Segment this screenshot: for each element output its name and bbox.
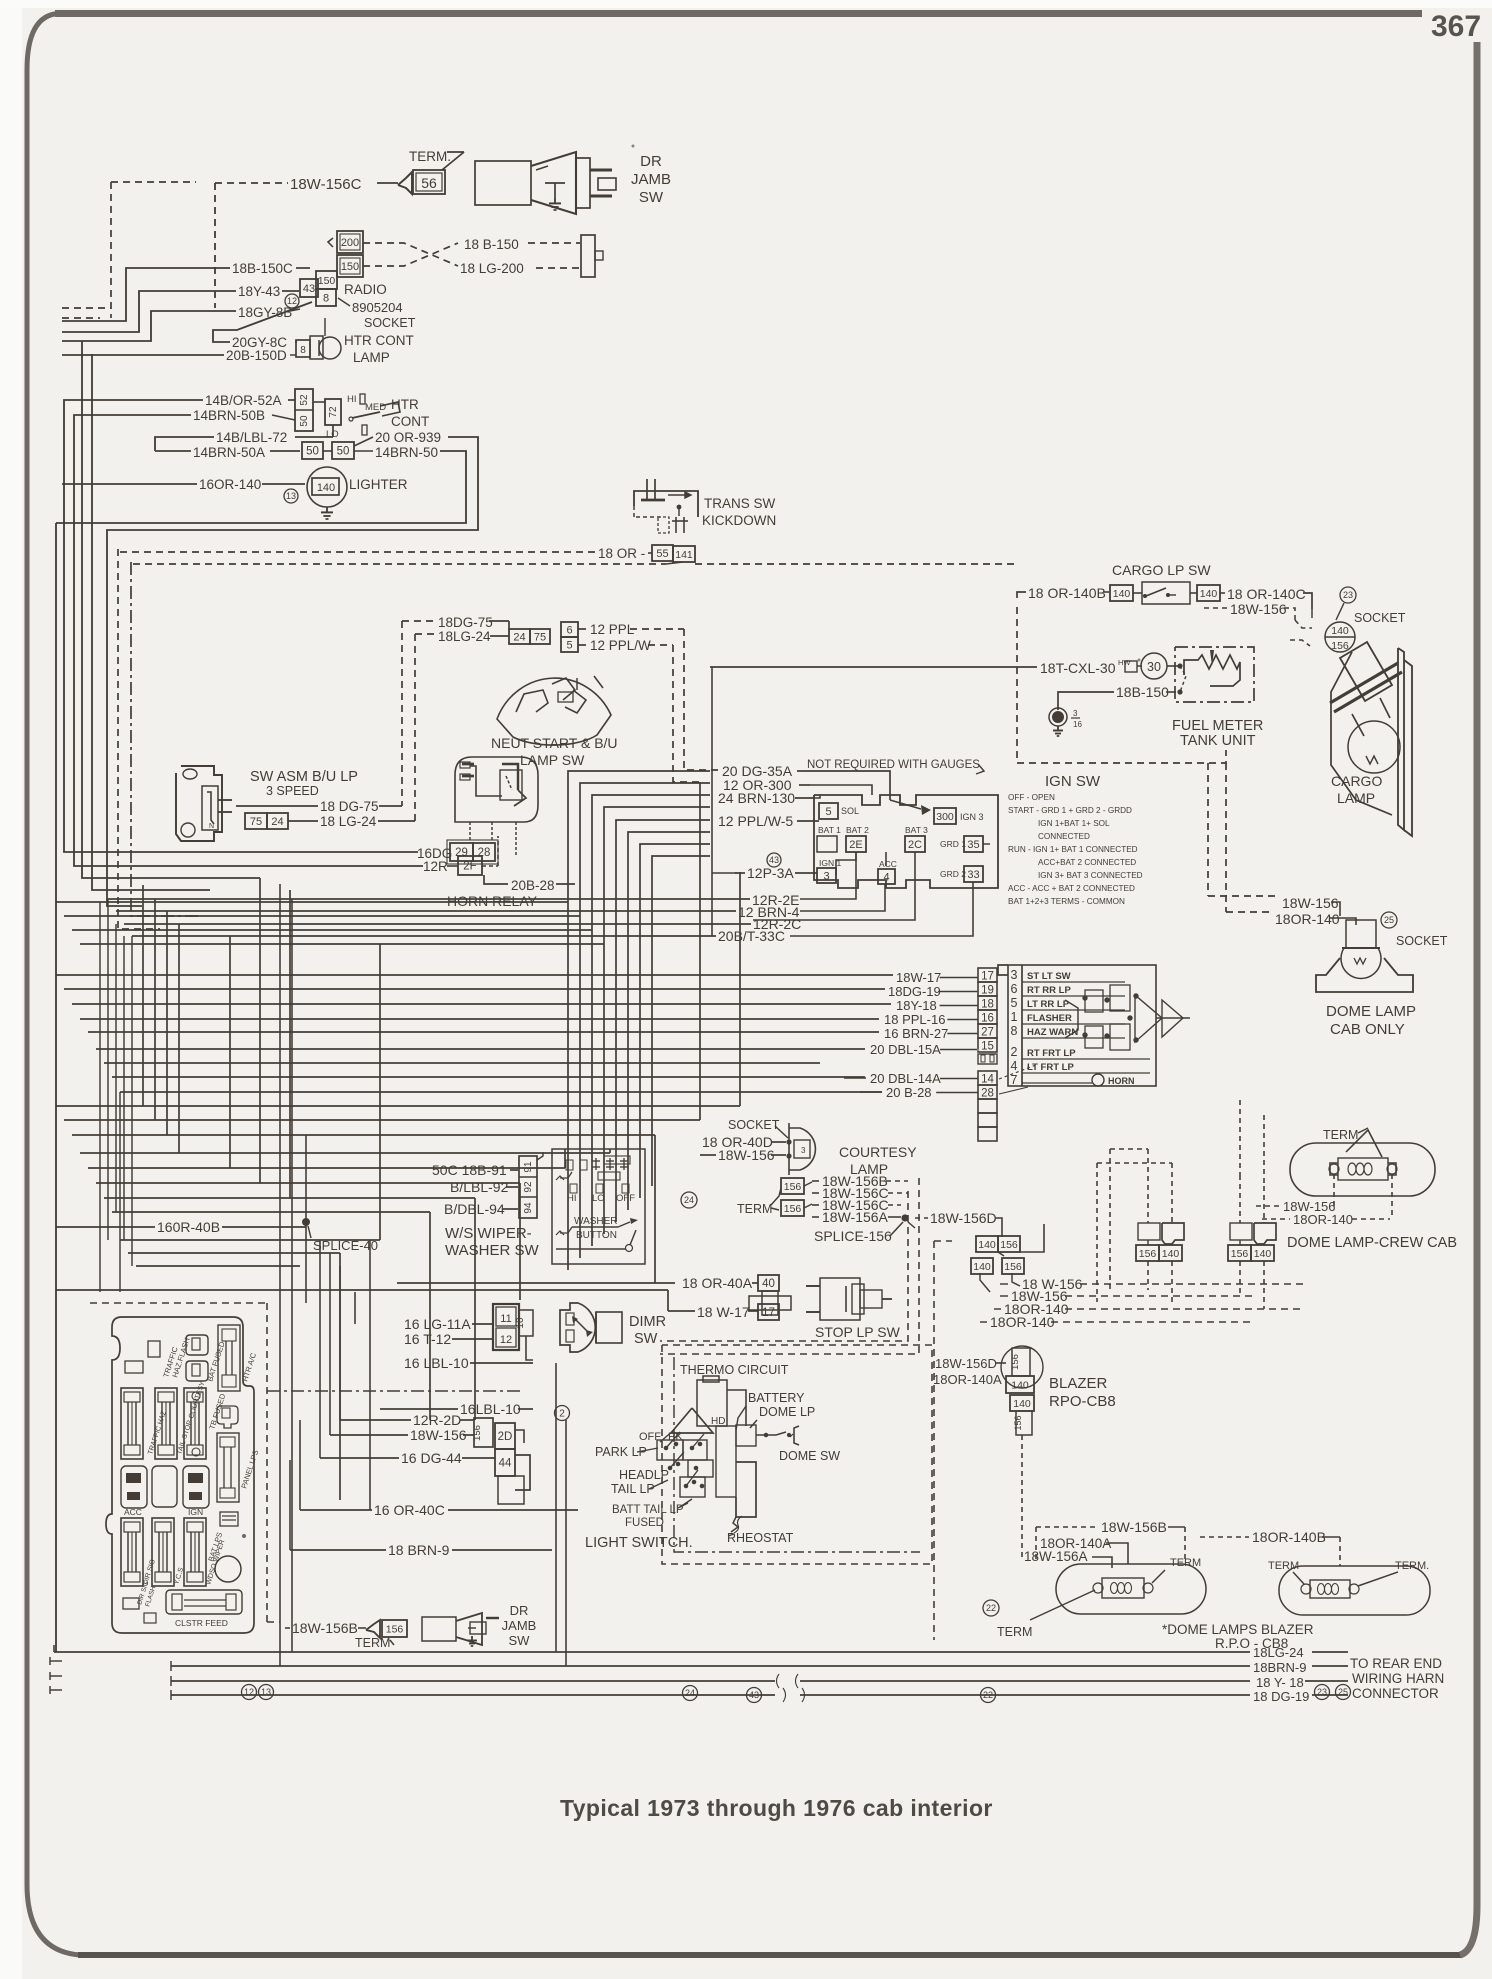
svg-text:14BRN-50B: 14BRN-50B <box>193 408 265 423</box>
washer button <box>560 1227 572 1233</box>
svg-text:17: 17 <box>981 971 994 983</box>
svg-text:20B-150D: 20B-150D <box>226 348 287 363</box>
washer connector 94 92 91 <box>519 1156 537 1218</box>
crew cab connector group 1 <box>1138 1223 1160 1240</box>
svg-text:B/LBL-92: B/LBL-92 <box>450 1179 509 1195</box>
svg-text:16 LG-11A: 16 LG-11A <box>404 1316 471 1332</box>
svg-text:RT RR LP: RT RR LP <box>1027 985 1071 996</box>
svg-text:24 BRN-130: 24 BRN-130 <box>718 790 795 806</box>
wire 18 OR dashed <box>120 551 596 553</box>
svg-text:156: 156 <box>472 1425 483 1441</box>
svg-text:3: 3 <box>801 1146 806 1155</box>
svg-text:18W-156: 18W-156 <box>410 1427 467 1443</box>
svg-text:12R-2D: 12R-2D <box>413 1412 461 1428</box>
svg-text:TO REAR END: TO REAR END <box>1350 1656 1442 1671</box>
ign internal leads <box>836 852 856 875</box>
crew cab dashed feeds <box>1147 1149 1149 1223</box>
svg-text:LT FRT LP: LT FRT LP <box>1027 1062 1074 1073</box>
svg-text:CARGO: CARGO <box>1331 773 1382 789</box>
svg-text:18 Y- 18: 18 Y- 18 <box>1256 1675 1304 1690</box>
svg-text:WIRING HARN: WIRING HARN <box>1352 1671 1444 1686</box>
svg-text:14BRN-50A: 14BRN-50A <box>193 445 265 460</box>
wire 18OR-140 crew cab <box>1262 1218 1290 1220</box>
svg-text:16LBL-10: 16LBL-10 <box>460 1401 521 1417</box>
svg-text:SOCKET: SOCKET <box>1396 934 1448 948</box>
wire 18W-156 crew cab <box>1256 1205 1280 1207</box>
bus circled refs <box>242 1685 257 1700</box>
dashed enclosure stop lamp region <box>660 1191 908 1341</box>
svg-text:40: 40 <box>762 1278 775 1290</box>
dashes to right verticals <box>1080 1283 1305 1285</box>
svg-text:24: 24 <box>684 1195 694 1205</box>
svg-text:NOT REQUIRED WITH GAUGES: NOT REQUIRED WITH GAUGES <box>807 759 980 771</box>
svg-text:43: 43 <box>769 855 779 865</box>
svg-text:11: 11 <box>500 1313 511 1325</box>
svg-text:18OR-140B: 18OR-140B <box>1252 1529 1326 1545</box>
fuse block circle <box>215 1556 241 1582</box>
connector 140/156 pair <box>976 1236 998 1252</box>
svg-text:HAZ WARN: HAZ WARN <box>1027 1027 1078 1038</box>
svg-text:RT FRT LP: RT FRT LP <box>1027 1048 1076 1059</box>
svg-text:HORN: HORN <box>1108 1076 1135 1086</box>
svg-text:KICKDOWN: KICKDOWN <box>702 513 776 528</box>
svg-text:SW: SW <box>509 1633 531 1648</box>
svg-text:18W-156: 18W-156 <box>1230 601 1287 617</box>
htr connector 72 <box>325 399 341 425</box>
label 18LG-24 top <box>415 633 434 635</box>
svg-text:18 OR -: 18 OR - <box>598 546 645 561</box>
cargo lamp bulb assembly <box>1340 642 1392 701</box>
svg-text:SPLICE-40: SPLICE-40 <box>313 1238 378 1253</box>
svg-text:15: 15 <box>981 1041 994 1053</box>
svg-text:SW: SW <box>634 1331 658 1347</box>
svg-text:140: 140 <box>1200 588 1218 600</box>
svg-text:18 B-150: 18 B-150 <box>464 237 519 252</box>
svg-text:27: 27 <box>981 1027 994 1039</box>
svg-text:3: 3 <box>823 870 829 882</box>
svg-text:COURTESY: COURTESY <box>839 1144 917 1160</box>
svg-text:CLSTR FEED: CLSTR FEED <box>175 1618 228 1628</box>
thermo leads <box>727 1390 746 1426</box>
svg-text:BAT 1: BAT 1 <box>818 825 841 835</box>
svg-text:18W-156: 18W-156 <box>1282 895 1339 911</box>
svg-text:GRD 2: GRD 2 <box>940 869 966 879</box>
svg-text:LT RR LP: LT RR LP <box>1027 999 1070 1010</box>
circled 24 courtesy <box>681 1192 697 1208</box>
svg-text:55: 55 <box>656 548 668 560</box>
svg-text:16: 16 <box>1073 720 1082 729</box>
svg-text:29: 29 <box>455 847 468 859</box>
dome lamp cab only symbol <box>1346 920 1376 948</box>
ign sw outline <box>814 795 998 888</box>
svg-text:18LG-24: 18LG-24 <box>438 629 491 644</box>
svg-text:18: 18 <box>981 999 994 1011</box>
box 24 75 <box>509 629 530 644</box>
svg-text:B/DBL-94: B/DBL-94 <box>444 1201 505 1217</box>
dimmer connector 11/12/10 <box>493 1304 519 1350</box>
svg-text:RADIO: RADIO <box>344 282 387 297</box>
svg-text:TERM: TERM <box>1170 1557 1201 1569</box>
svg-text:367: 367 <box>1431 10 1481 43</box>
fuse block bottom bits <box>123 1598 139 1609</box>
svg-text:12: 12 <box>500 1334 512 1346</box>
turn signal switch block <box>1008 965 1156 1086</box>
dashed boundary fuse region <box>90 1302 267 1304</box>
radio socket boxes 43 150 8 <box>300 279 318 297</box>
svg-text:1: 1 <box>1011 1010 1018 1024</box>
svg-text:14BRN-50: 14BRN-50 <box>375 445 438 460</box>
svg-text:SOL: SOL <box>841 806 859 816</box>
svg-text:THERMO CIRCUIT: THERMO CIRCUIT <box>680 1363 789 1377</box>
svg-text:START - GRD 1 + GRD 2 - GRDD: START - GRD 1 + GRD 2 - GRDD <box>1008 806 1132 815</box>
svg-text:18OR-140: 18OR-140 <box>1275 911 1340 927</box>
circled 23 socket <box>1340 587 1356 603</box>
svg-text:14B/OR-52A: 14B/OR-52A <box>205 393 282 408</box>
svg-text:18 OR-140C: 18 OR-140C <box>1227 586 1306 602</box>
bus line 3 <box>171 1680 775 1682</box>
svg-text:4: 4 <box>1011 1059 1018 1073</box>
svg-text:43: 43 <box>749 1690 759 1700</box>
svg-text:DR: DR <box>510 1603 529 1618</box>
svg-text:18W-156D: 18W-156D <box>935 1356 997 1371</box>
svg-text:22: 22 <box>983 1690 993 1700</box>
svg-text:156: 156 <box>1013 1415 1023 1430</box>
svg-text:140: 140 <box>1113 588 1131 600</box>
svg-text:6: 6 <box>566 624 572 636</box>
svg-text:FUSED: FUSED <box>625 1517 664 1529</box>
svg-text:JAMB: JAMB <box>502 1618 537 1633</box>
svg-text:4: 4 <box>883 871 889 883</box>
svg-text:18 DG-75: 18 DG-75 <box>320 799 379 814</box>
wire 18B-150 crossover dashed <box>363 243 458 266</box>
circled 22 blazer <box>983 1600 999 1616</box>
svg-text:TAIL LP: TAIL LP <box>611 1482 655 1496</box>
svg-text:DIMR: DIMR <box>629 1314 666 1330</box>
svg-text:RPO-CB8: RPO-CB8 <box>1049 1393 1116 1410</box>
svg-text:12: 12 <box>244 1687 254 1697</box>
svg-text:SOCKET: SOCKET <box>728 1118 780 1132</box>
svg-text:TERM: TERM <box>997 1625 1032 1639</box>
wire 18W-17 long <box>667 1290 669 1311</box>
svg-text:6: 6 <box>1011 982 1018 996</box>
bat lps small <box>220 1512 238 1526</box>
washer contacts <box>566 1160 573 1170</box>
boxes 55 141 <box>652 545 673 561</box>
svg-text:SOCKET: SOCKET <box>1354 611 1406 625</box>
svg-text:7: 7 <box>1011 1073 1018 1087</box>
rheostat squiggle <box>731 1517 738 1532</box>
fuse row lower <box>121 1518 143 1586</box>
svg-text:CONNECTED: CONNECTED <box>1038 832 1090 841</box>
fuel meter dashed enclosure <box>1017 607 1226 763</box>
svg-text:2F: 2F <box>463 861 476 873</box>
svg-text:DOME LP: DOME LP <box>759 1405 815 1419</box>
bus line 4 <box>171 1694 775 1696</box>
svg-text:156: 156 <box>784 1181 802 1193</box>
svg-text:140: 140 <box>978 1239 996 1251</box>
svg-text:RUN - IGN 1+ BAT 1 CONNECTED: RUN - IGN 1+ BAT 1 CONNECTED <box>1008 845 1138 854</box>
dashed enclosure light switch outer <box>659 1341 661 1354</box>
svg-text:DOME LAMP-CREW CAB: DOME LAMP-CREW CAB <box>1287 1235 1457 1251</box>
bus line 2 <box>171 1665 1250 1667</box>
svg-text:300: 300 <box>936 811 954 823</box>
svg-text:16OR-140: 16OR-140 <box>199 477 261 492</box>
svg-text:CONNECTOR: CONNECTOR <box>1352 1686 1439 1701</box>
svg-text:2C: 2C <box>908 839 922 851</box>
svg-text:23: 23 <box>1343 590 1353 600</box>
scan speck <box>632 145 635 148</box>
svg-text:156: 156 <box>1231 1248 1249 1260</box>
svg-text:18DG-19: 18DG-19 <box>888 984 941 999</box>
svg-text:WASHER SW: WASHER SW <box>445 1242 539 1259</box>
thermo triangle <box>671 1408 713 1433</box>
svg-text:94: 94 <box>523 1202 534 1214</box>
svg-text:52: 52 <box>299 394 310 406</box>
acc connector <box>121 1466 147 1508</box>
stop connector cross symbol <box>752 1290 788 1292</box>
svg-text:44: 44 <box>499 1458 512 1470</box>
svg-text:TERM: TERM <box>355 1636 390 1650</box>
svg-text:DOME LAMP: DOME LAMP <box>1326 1003 1416 1020</box>
dome sw contact <box>756 1434 776 1436</box>
svg-text:22: 22 <box>986 1603 996 1613</box>
svg-text:25: 25 <box>1338 1687 1348 1697</box>
svg-text:IGN 3+ BAT 3 CONNECTED: IGN 3+ BAT 3 CONNECTED <box>1038 871 1143 880</box>
svg-text:20 DBL-15A: 20 DBL-15A <box>870 1042 941 1057</box>
cargo lamp bracket <box>1398 648 1404 830</box>
svg-text:TERM.: TERM. <box>1395 1560 1429 1572</box>
svg-text:ACC: ACC <box>879 859 897 869</box>
svg-text:75: 75 <box>534 631 546 643</box>
svg-text:12R: 12R <box>423 859 448 874</box>
svg-text:18 W-17: 18 W-17 <box>697 1304 750 1320</box>
svg-text:NEUT START & B/U: NEUT START & B/U <box>491 735 618 751</box>
svg-text:72: 72 <box>328 406 339 418</box>
svg-text:18DG-75: 18DG-75 <box>438 615 493 630</box>
fuel meter box <box>1175 647 1254 702</box>
dimmer switch symbol <box>560 1303 595 1352</box>
fuse holder plugs top <box>186 1335 208 1355</box>
label 18DG-75 top <box>402 620 434 622</box>
dome lamps blazer left oval <box>1056 1564 1206 1614</box>
svg-text:140: 140 <box>1162 1248 1180 1260</box>
wire 18W-156C dashed lead <box>215 182 288 184</box>
ign connector <box>183 1466 209 1508</box>
svg-text:12P-3A: 12P-3A <box>747 865 794 881</box>
svg-text:5: 5 <box>566 639 572 651</box>
connector 140 and 156 single <box>971 1258 993 1274</box>
wires 18W-156B/C/C/A <box>812 1180 819 1182</box>
bus break marks <box>777 1674 780 1688</box>
svg-text:12 PPL: 12 PPL <box>590 622 635 637</box>
svg-text:17: 17 <box>762 1307 775 1319</box>
svg-text:TERM -: TERM - <box>1268 1560 1306 1572</box>
svg-text:24: 24 <box>271 816 283 828</box>
bottom term connector <box>366 1620 380 1638</box>
neut start switch fan symbol <box>497 678 611 745</box>
bus line 1 <box>54 1651 1250 1653</box>
svg-text:140: 140 <box>317 482 335 494</box>
svg-text:2E: 2E <box>849 839 862 851</box>
ts connector box column <box>978 968 997 982</box>
svg-text:16 DG-44: 16 DG-44 <box>401 1450 462 1466</box>
svg-text:56: 56 <box>421 175 437 191</box>
connector 56 <box>398 172 412 194</box>
svg-text:ST LT SW: ST LT SW <box>1027 971 1071 982</box>
svg-text:HI: HI <box>567 1193 577 1204</box>
svg-text:14B/LBL-72: 14B/LBL-72 <box>216 430 287 445</box>
clstr feed connector <box>166 1590 242 1614</box>
dashed wire 18DG-75 vertical <box>401 621 403 806</box>
svg-text:140: 140 <box>1011 1379 1029 1391</box>
svg-text:OFF: OFF <box>639 1431 661 1443</box>
wire 18OR-140 dome cab <box>1226 911 1270 913</box>
svg-text:140: 140 <box>1331 625 1349 637</box>
svg-text:18W-156D: 18W-156D <box>930 1210 997 1226</box>
svg-text:2D: 2D <box>498 1431 513 1443</box>
svg-text:12 PPL/W-5: 12 PPL/W-5 <box>718 813 793 829</box>
svg-text:8905204: 8905204 <box>352 300 403 315</box>
light switch boxes <box>657 1440 683 1460</box>
svg-text:200: 200 <box>341 237 359 249</box>
box 44 <box>495 1449 515 1476</box>
svg-text:20 DBL-14A: 20 DBL-14A <box>870 1071 941 1086</box>
svg-text:150: 150 <box>341 261 359 273</box>
svg-text:16: 16 <box>981 1013 994 1025</box>
svg-text:BLAZER: BLAZER <box>1049 1375 1108 1392</box>
svg-text:18 OR-40A: 18 OR-40A <box>682 1275 753 1291</box>
svg-text:140: 140 <box>1254 1248 1272 1260</box>
svg-text:16 OR-40C: 16 OR-40C <box>374 1502 445 1518</box>
svg-text:10: 10 <box>515 1317 526 1329</box>
bus circled 23 25 <box>1315 1685 1330 1700</box>
svg-text:TERM: TERM <box>737 1202 772 1216</box>
svg-text:*DOME LAMPS BLAZER: *DOME LAMPS BLAZER <box>1162 1622 1314 1637</box>
svg-text:RHEOSTAT: RHEOSTAT <box>727 1531 794 1545</box>
lighter <box>307 467 347 507</box>
svg-text:18W-156: 18W-156 <box>718 1147 775 1163</box>
box 5 and 12 PPL/W <box>561 637 578 652</box>
backup switch body <box>455 757 538 822</box>
svg-text:16 LBL-10: 16 LBL-10 <box>404 1355 469 1371</box>
svg-text:SOCKET: SOCKET <box>364 316 416 330</box>
svg-text:24: 24 <box>513 631 525 643</box>
trans sw kickdown symbol <box>634 491 698 517</box>
splice 156 <box>902 1215 908 1221</box>
svg-text:25: 25 <box>1384 915 1394 925</box>
htr connector 50/52 <box>295 389 313 431</box>
svg-text:20 B-28: 20 B-28 <box>886 1085 932 1100</box>
svg-text:18B-150C: 18B-150C <box>232 261 293 276</box>
left edge vertical bundle <box>99 902 101 1292</box>
svg-text:R.P.O - CB8: R.P.O - CB8 <box>1215 1636 1288 1651</box>
svg-text:91: 91 <box>523 1161 534 1173</box>
nested corner bundle to ign <box>568 771 710 1270</box>
svg-text:50: 50 <box>337 446 350 458</box>
svg-text:FLASHER: FLASHER <box>1027 1013 1072 1024</box>
circled 2 <box>555 1406 570 1421</box>
page border frame <box>55 10 1422 17</box>
svg-text:CARGO LP SW: CARGO LP SW <box>1112 562 1211 578</box>
svg-text:5: 5 <box>1011 996 1018 1010</box>
splice 40 <box>303 1219 310 1226</box>
svg-text:8: 8 <box>323 292 329 304</box>
svg-text:OFF - OPEN: OFF - OPEN <box>1008 793 1055 802</box>
wire mesh vertical corners <box>142 885 144 1106</box>
svg-text:33: 33 <box>967 869 979 881</box>
svg-text:LO: LO <box>592 1193 605 1204</box>
svg-text:50: 50 <box>299 415 310 427</box>
svg-text:SW ASM B/U LP: SW ASM B/U LP <box>250 769 358 785</box>
svg-text:28: 28 <box>478 847 491 859</box>
svg-text:HTR: HTR <box>391 397 419 412</box>
dr jamb switch symbol <box>475 161 531 205</box>
fuse htr ac <box>218 1325 240 1391</box>
svg-text:3: 3 <box>1011 968 1018 982</box>
svg-text:160R-40B: 160R-40B <box>157 1219 220 1235</box>
svg-text:18W-156B: 18W-156B <box>292 1620 358 1636</box>
crew cab connector group 2 <box>1230 1223 1252 1240</box>
ts horn <box>1092 1074 1104 1086</box>
svg-text:SW: SW <box>639 189 664 206</box>
svg-text:140: 140 <box>1013 1398 1031 1410</box>
dashed wire right 18W-156 drop <box>1207 763 1209 896</box>
svg-text:18W-156B: 18W-156B <box>1101 1519 1167 1535</box>
svg-text:CAB ONLY: CAB ONLY <box>1330 1021 1405 1038</box>
dashed staircase from ts block <box>1207 763 1209 896</box>
bottom dr jamb switch symbol <box>422 1617 456 1641</box>
svg-text:GRD 1: GRD 1 <box>940 839 966 849</box>
box 6 and 12 PPL <box>561 622 578 637</box>
dashed wire right 18OR-140 drop <box>1225 763 1227 912</box>
svg-text:HEADLP: HEADLP <box>619 1468 669 1482</box>
svg-text:18OR-140: 18OR-140 <box>990 1314 1055 1330</box>
box 75 24 <box>245 813 267 829</box>
wire 18W-156B bottom <box>280 1622 288 1628</box>
svg-text:2: 2 <box>559 1409 565 1420</box>
svg-text:HTR CONT: HTR CONT <box>344 333 414 348</box>
svg-text:BAT 2: BAT 2 <box>846 825 869 835</box>
svg-text:LIGHTER: LIGHTER <box>349 477 408 492</box>
wire 18 OR-40A long <box>397 1282 675 1284</box>
svg-text:BAT 3: BAT 3 <box>905 825 928 835</box>
svg-text:141: 141 <box>675 549 693 561</box>
htr boxes 50 50 <box>302 442 323 459</box>
wire 18OR-140B <box>1017 592 1026 598</box>
fuse panel lps <box>217 1433 239 1502</box>
wire 18W-156 cargo <box>1204 607 1228 609</box>
svg-text:LAMP SW: LAMP SW <box>520 752 585 768</box>
fuse block outline <box>106 1317 254 1633</box>
light switch contacts <box>664 1446 668 1450</box>
connector right stub <box>581 235 595 277</box>
blazer dashed wires <box>933 1385 935 1640</box>
cargo socket circle 140/156 <box>1325 622 1355 652</box>
wire 18W-156 dome cab <box>1208 895 1276 897</box>
svg-text:140: 140 <box>973 1261 991 1273</box>
svg-text:18 OR-140B: 18 OR-140B <box>1028 585 1106 601</box>
verticals feeding fuse area <box>279 884 281 1666</box>
washer switch box <box>552 1149 645 1264</box>
svg-text:3: 3 <box>1073 709 1078 718</box>
svg-text:BATTERY: BATTERY <box>748 1391 805 1405</box>
svg-text:13: 13 <box>261 1687 271 1697</box>
ts label leads <box>940 977 978 979</box>
svg-text:18 DG-19: 18 DG-19 <box>1253 1689 1309 1704</box>
svg-text:MED: MED <box>365 402 386 413</box>
svg-text:ACC: ACC <box>124 1507 142 1517</box>
svg-text:75: 75 <box>250 816 262 828</box>
